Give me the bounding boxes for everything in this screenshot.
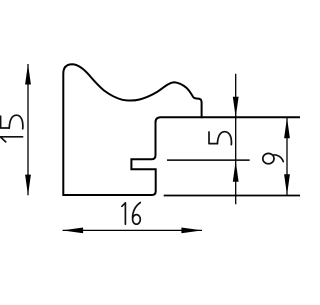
dimension 15 label: [1, 115, 23, 142]
dimension 16 label: [122, 203, 140, 225]
dimension 15 bottom arrow: [25, 175, 31, 196]
dimension 15 top arrow: [25, 64, 31, 85]
dimension 16 line: [63, 229, 202, 231]
dimension 5 lower arrow (pointing up to groove line): [233, 161, 239, 182]
moulding profile outline: [63, 64, 201, 195]
dimension 16 left arrow: [62, 228, 83, 234]
dimension 5 line: [235, 74, 237, 205]
dimension 5 label: [209, 132, 231, 145]
dimension 9 bottom arrow: [284, 174, 290, 195]
middle extension line (groove top): [167, 159, 250, 161]
dimension 16 right arrow: [181, 228, 202, 234]
rabbet ledge line extension to image edge: [201, 116, 300, 118]
dimension 15 line: [27, 64, 29, 195]
dimension 5 upper arrow (pointing down to ledge): [233, 97, 239, 118]
dimension 9 top arrow: [284, 118, 290, 139]
dimension 9 label: [263, 153, 284, 163]
dimension 9 line: [286, 118, 288, 195]
bottom extension line: [164, 195, 300, 197]
